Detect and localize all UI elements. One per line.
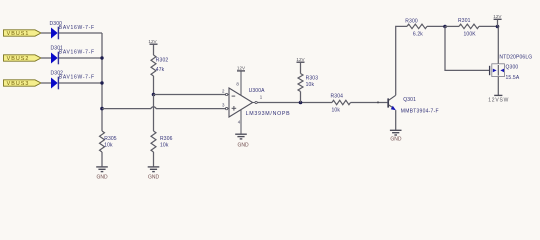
op-amp pin 3 [222,103,229,110]
wire gate node to R301 [445,25,459,27]
svg-text:BAV16W-7-F: BAV16W-7-F [59,25,95,31]
ground below R306 [148,167,160,181]
resistor R306 [151,131,173,152]
svg-text:12V: 12V [237,65,246,70]
wire Q300 drain down to 12VSW [497,77,499,95]
svg-text:12V: 12V [493,14,502,19]
ground below op-amp [235,134,249,148]
wire R303 to output node [300,92,302,103]
wire gate node down and right to Q300 gate [445,26,489,70]
wire node A to op-amp pin 3 (hop over reference net) [102,107,226,109]
op-amp U300A [229,88,290,117]
wire R304 to Q301 base [351,102,388,104]
wire R300 to gate node [427,25,445,27]
ground below Q301 [390,130,402,142]
svg-text:BAV16W-7-F: BAV16W-7-F [59,75,95,81]
wire R305 to GND [101,152,103,166]
wire 12V node down to Q300 source [497,26,499,63]
resistor R300 [405,19,427,38]
diode D301 [51,46,95,65]
svg-text:10k: 10k [332,107,341,113]
junction diode bus / VBUS2 [100,56,103,59]
resistor R304 [331,94,351,114]
wire Q301 collector up to R300 [396,26,407,95]
junction node B [152,93,156,97]
diode D302 [51,71,95,90]
ground below R305 [96,167,108,181]
svg-text:MMBT3904-7-F: MMBT3904-7-F [401,109,439,115]
power 12V above R302 [148,39,157,55]
port VBUS2 [4,55,42,62]
svg-text:R301: R301 [458,18,471,24]
wire node B to op-amp pin 2 [154,94,227,96]
svg-text:VBUS1: VBUS1 [7,31,30,37]
wire R301 to 12V node [479,25,498,27]
wire Q301 emitter to GND [395,110,397,130]
svg-text:12VSW: 12VSW [488,97,509,103]
mosfet Q300 [490,54,533,81]
svg-text:Q301: Q301 [403,97,416,103]
svg-text:VBUS3: VBUS3 [7,81,30,87]
wire VBUS1 to D300 [41,32,51,34]
svg-text:R305: R305 [104,136,117,142]
wire op-amp output to Q301 base [257,102,332,104]
op-amp pin 4 ground pin [238,110,241,134]
resistor R302 [151,55,168,76]
junction diode bus / VBUS3 [100,81,103,84]
svg-text:GND: GND [96,175,108,181]
power 12V above R303 [296,57,305,74]
junction diode bus / pin3 wire / R305 [100,107,104,111]
svg-text:10k: 10k [104,142,113,148]
wire D302 to bus [59,82,102,84]
op-amp pin 2 [222,88,229,95]
resistor R305 [100,131,117,152]
svg-text:VBUS2: VBUS2 [7,56,30,62]
svg-text:GND: GND [390,136,402,142]
wire end mark on base wire [377,101,379,103]
svg-text:U300A: U300A [249,88,266,94]
svg-text:GND: GND [148,175,160,181]
port VBUS3 [4,80,42,87]
wire D300 to bus [59,32,102,34]
svg-text:100K: 100K [464,31,477,37]
diode D300 [50,21,95,40]
wire diode bus vertical [101,33,103,131]
svg-text:R302: R302 [156,58,169,64]
svg-text:10k: 10k [306,82,315,88]
power 12VSW [488,95,509,103]
junction gate node [443,25,447,29]
svg-text:NTD20P06LG: NTD20P06LG [499,54,532,60]
power 12V top right [493,14,502,27]
op-amp pin 1 output [253,95,263,104]
svg-text:LM393M/NOPB: LM393M/NOPB [246,111,291,117]
power 12V above op-amp [237,65,246,71]
wire D301 to bus [59,57,102,59]
port VBUS1 [4,30,42,37]
svg-text:BAV16W-7-F: BAV16W-7-F [59,50,95,56]
svg-text:R304: R304 [331,94,344,100]
junction output / R303 [299,101,303,105]
svg-text:6.2k: 6.2k [413,32,423,38]
svg-text:10k: 10k [160,142,169,148]
transistor Q301 [388,95,439,114]
svg-text:15.5A: 15.5A [506,75,520,81]
svg-text:R300: R300 [405,19,418,25]
svg-text:12V: 12V [148,39,157,44]
wire VBUS2 to D301 [41,57,51,59]
svg-text:GND: GND [237,142,249,148]
wire R302 to node B [153,76,155,95]
wire node B down to R306 [153,95,155,132]
svg-text:47k: 47k [156,67,165,73]
resistor R303 [298,74,318,92]
svg-text:R303: R303 [306,76,319,82]
resistor R301 [458,18,479,37]
op-amp pin 8 power [236,71,241,95]
svg-text:Q300: Q300 [506,65,519,71]
wire VBUS3 to D302 [41,82,51,84]
svg-text:R306: R306 [160,136,173,142]
junction 12V node [496,25,500,29]
wire R306 to GND [153,152,155,166]
svg-text:12V: 12V [296,57,305,62]
